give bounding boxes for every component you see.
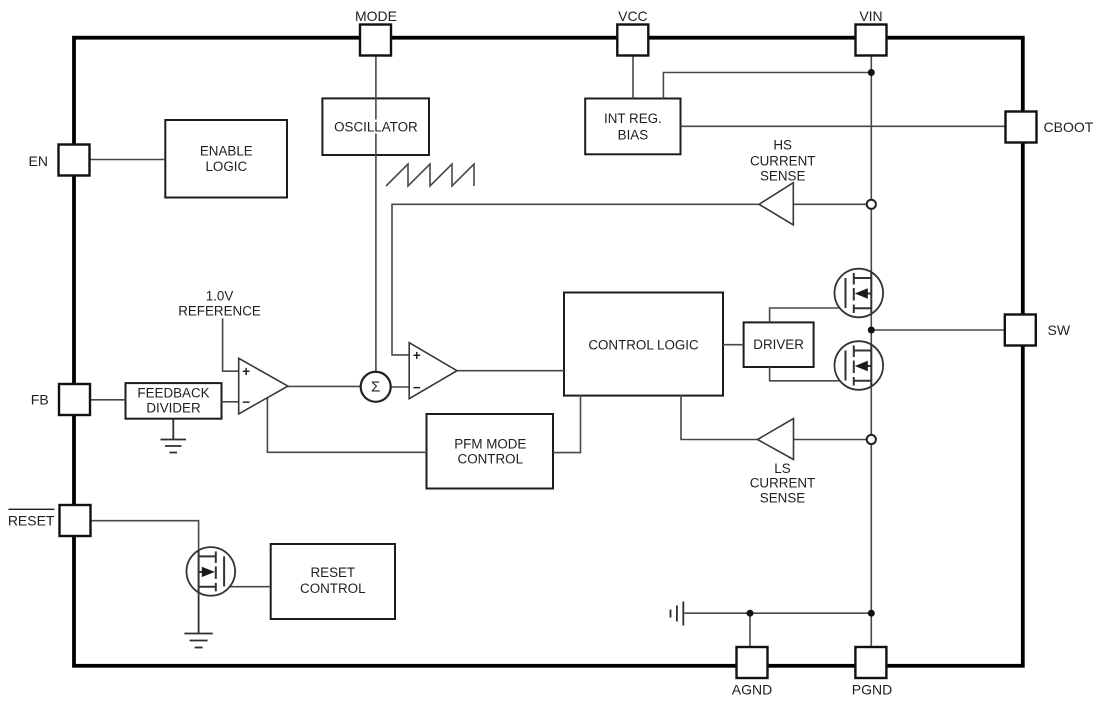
svg-text:VIN: VIN xyxy=(859,8,882,24)
ground below reset MOSFET xyxy=(184,592,212,648)
svg-text:BIAS: BIAS xyxy=(618,127,649,142)
svg-text:SW: SW xyxy=(1048,322,1071,338)
block PFM MODE CONTROL xyxy=(427,414,554,489)
label RESET CONTROL xyxy=(300,565,365,596)
label RESET with overline xyxy=(8,509,55,528)
wire DRIVER to HS gate xyxy=(770,308,846,322)
label INT REG. BIAS xyxy=(604,111,662,143)
svg-text:VCC: VCC xyxy=(618,8,648,24)
wire comparator output to CONTROL LOGIC xyxy=(457,370,564,372)
svg-text:LS: LS xyxy=(774,461,790,476)
svg-text:SENSE: SENSE xyxy=(760,168,805,183)
wire summing node to comparator minus input xyxy=(390,386,410,388)
svg-text:PGND: PGND xyxy=(852,682,892,698)
label HS CURRENT SENSE xyxy=(750,137,815,183)
svg-text:CBOOT: CBOOT xyxy=(1044,119,1094,135)
svg-text:SENSE: SENSE xyxy=(760,490,805,505)
wire ground bus to AGND pin xyxy=(749,613,751,647)
block RESET CONTROL xyxy=(271,544,395,619)
pin RESET xyxy=(60,505,91,536)
amplifier HS current sense xyxy=(759,183,793,225)
ground symbol left of AGND xyxy=(671,602,684,626)
wire VIN rail vertical xyxy=(870,56,872,648)
wire LS current sense output to CONTROL LOGIC xyxy=(681,395,758,440)
wire error amp output tap to PFM MODE CONTROL xyxy=(267,398,426,453)
node HS sense tap open circle xyxy=(867,200,876,209)
wire HS current sense output to comparator plus input xyxy=(392,204,759,355)
wire FEEDBACK DIVIDER to error amp minus input xyxy=(222,401,239,403)
svg-text:1.0V: 1.0V xyxy=(206,288,234,303)
ground below FEEDBACK DIVIDER xyxy=(161,419,187,453)
svg-text:DIVIDER: DIVIDER xyxy=(146,401,201,416)
label PFM MODE CONTROL xyxy=(454,436,526,466)
svg-text:CONTROL: CONTROL xyxy=(300,581,365,596)
svg-text:REFERENCE: REFERENCE xyxy=(178,303,261,318)
wire FB pin to FEEDBACK DIVIDER xyxy=(91,399,126,401)
svg-text:CONTROL: CONTROL xyxy=(458,452,523,467)
svg-text:FEEDBACK: FEEDBACK xyxy=(137,386,209,401)
pin VIN xyxy=(856,25,887,56)
wire DRIVER to LS gate xyxy=(770,367,846,381)
wire PFM MODE CONTROL to CONTROL LOGIC xyxy=(553,395,581,453)
pin FB xyxy=(59,384,90,415)
block OSCILLATOR xyxy=(322,98,429,155)
svg-text:LOGIC: LOGIC xyxy=(205,159,247,174)
transistor LS MOSFET xyxy=(835,341,884,390)
pin SW xyxy=(1005,315,1036,346)
svg-text:RESET: RESET xyxy=(8,513,55,529)
svg-text:CURRENT: CURRENT xyxy=(750,153,815,168)
svg-text:−: − xyxy=(242,394,250,409)
wire 1.0V reference to error amp plus input xyxy=(223,318,240,371)
op-amp error amplifier xyxy=(239,358,288,414)
junction dot ground bus at AGND xyxy=(747,610,754,617)
amplifier LS current sense xyxy=(758,419,794,460)
wire EN pin to ENABLE LOGIC xyxy=(90,159,166,161)
label 1.0V REFERENCE xyxy=(178,288,261,318)
label LS CURRENT SENSE xyxy=(750,461,815,505)
block FEEDBACK DIVIDER xyxy=(126,383,222,419)
comparator PWM xyxy=(409,343,457,399)
svg-text:AGND: AGND xyxy=(732,682,772,698)
IC outer boundary xyxy=(74,38,1023,666)
svg-text:Σ: Σ xyxy=(371,378,380,395)
wire INT REG. BIAS to CBOOT pin xyxy=(681,125,1006,127)
wire switch node to SW pin xyxy=(871,329,1004,331)
wire HS current sense input xyxy=(793,203,866,205)
svg-text:EN: EN xyxy=(29,153,48,169)
svg-text:+: + xyxy=(242,364,250,379)
svg-text:CURRENT: CURRENT xyxy=(750,476,815,491)
svg-text:DRIVER: DRIVER xyxy=(753,337,804,352)
wire error amp output to summing node xyxy=(288,385,361,387)
svg-text:FB: FB xyxy=(31,391,49,407)
svg-text:ENABLE: ENABLE xyxy=(200,144,253,159)
svg-text:RESET: RESET xyxy=(310,565,355,580)
transistor HS MOSFET xyxy=(835,269,884,318)
svg-text:HS: HS xyxy=(773,137,792,152)
wire VIN tap to INT REG. BIAS xyxy=(663,73,871,99)
svg-text:CONTROL LOGIC: CONTROL LOGIC xyxy=(588,337,699,352)
node LS sense tap open circle xyxy=(867,435,876,444)
svg-text:+: + xyxy=(413,348,421,363)
junction dot switch node xyxy=(868,327,875,334)
svg-text:OSCILLATOR: OSCILLATOR xyxy=(334,119,418,134)
label FEEDBACK DIVIDER xyxy=(137,386,209,416)
wire internal ground bus xyxy=(683,612,871,614)
label ENABLE LOGIC xyxy=(200,144,253,174)
junction dot VIN tap xyxy=(868,69,875,76)
svg-text:−: − xyxy=(413,380,421,395)
wire MODE pin through OSCILLATOR to summing node xyxy=(375,56,377,120)
svg-text:INT REG.: INT REG. xyxy=(604,111,662,126)
sawtooth oscillator waveform xyxy=(386,164,474,186)
block CONTROL LOGIC xyxy=(564,293,723,396)
pin PGND xyxy=(855,647,886,678)
pin CBOOT xyxy=(1006,112,1037,143)
wire VCC pin to INT REG. BIAS xyxy=(632,56,634,99)
junction dot ground bus at PGND xyxy=(868,610,875,617)
block DRIVER xyxy=(744,322,814,367)
wire LS current sense input xyxy=(794,439,867,441)
wire RESET pin to reset MOSFET drain xyxy=(91,521,199,551)
pin MODE xyxy=(360,25,391,56)
wire CONTROL LOGIC to DRIVER xyxy=(723,344,744,346)
block INT REG. BIAS xyxy=(585,99,680,155)
pin EN xyxy=(59,145,90,176)
transistor reset MOSFET xyxy=(187,547,236,596)
block ENABLE LOGIC xyxy=(165,120,287,198)
svg-text:PFM MODE: PFM MODE xyxy=(454,436,526,451)
pin AGND xyxy=(737,647,768,678)
wire reset MOSFET gate to RESET CONTROL xyxy=(224,586,271,588)
summing node sigma xyxy=(361,372,391,402)
svg-text:MODE: MODE xyxy=(355,8,397,24)
pin VCC xyxy=(617,25,648,56)
